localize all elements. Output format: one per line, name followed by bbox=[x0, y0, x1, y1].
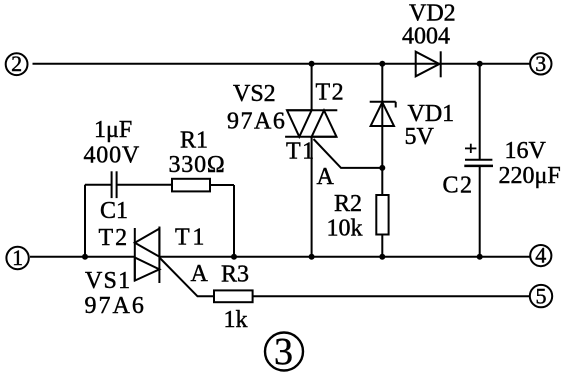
wire VS2 gate to node A bbox=[314, 139, 383, 168]
svg-text:VS2: VS2 bbox=[233, 81, 276, 107]
diode VD2 bbox=[416, 51, 441, 77]
svg-text:1: 1 bbox=[12, 245, 23, 270]
resistor R1 bbox=[172, 179, 210, 192]
svg-text:3: 3 bbox=[535, 51, 546, 76]
zener diode VD1 bbox=[370, 64, 396, 168]
svg-text:1μF: 1μF bbox=[94, 117, 132, 143]
svg-text:T1: T1 bbox=[175, 225, 207, 251]
terminal 3 bbox=[530, 51, 551, 76]
junction line1 at C2 bbox=[477, 254, 483, 260]
resistor R2 bbox=[376, 168, 388, 257]
terminal 2 bbox=[6, 51, 28, 76]
svg-text:10k: 10k bbox=[327, 216, 363, 242]
terminal 4 bbox=[530, 242, 551, 267]
svg-text:R1: R1 bbox=[180, 128, 208, 154]
junction node A bbox=[379, 165, 385, 171]
svg-text:4: 4 bbox=[535, 242, 546, 267]
capacitor C1 bbox=[85, 171, 172, 198]
junction line1 at C1 riser bbox=[82, 254, 88, 260]
wire R1 right riser bbox=[233, 185, 235, 257]
svg-text:5V: 5V bbox=[405, 124, 435, 150]
svg-text:A: A bbox=[317, 164, 335, 190]
svg-text:1k: 1k bbox=[224, 307, 248, 333]
svg-text:3: 3 bbox=[274, 331, 293, 373]
svg-text:97A6: 97A6 bbox=[85, 293, 146, 319]
svg-text:A: A bbox=[191, 261, 209, 287]
wire R3 to terminal 5 bbox=[253, 295, 530, 297]
svg-text:97A6: 97A6 bbox=[227, 109, 286, 135]
triac VS2 bbox=[285, 110, 337, 137]
triac VS1 bbox=[135, 227, 160, 284]
figure number 3 bbox=[265, 331, 303, 373]
capacitor C2 bbox=[464, 64, 493, 257]
junction on line 2 at VD1 branch bbox=[379, 61, 385, 67]
wire R1 to right riser bbox=[210, 184, 234, 186]
terminal 5 bbox=[530, 283, 552, 308]
junction on line 2 at VS2 branch bbox=[309, 61, 315, 67]
svg-text:16V: 16V bbox=[505, 138, 547, 164]
svg-text:330Ω: 330Ω bbox=[169, 152, 226, 178]
wire VS2 T2 riser bbox=[311, 64, 313, 111]
wire line 1 from terminal 1 to VS1 T2 bar bbox=[30, 256, 135, 258]
junction on line 2 at C2 branch bbox=[477, 61, 483, 67]
junction line1 at R2 bbox=[379, 254, 385, 260]
wire VS1 gate diagonal bbox=[159, 258, 214, 297]
svg-text:4004: 4004 bbox=[402, 24, 450, 50]
terminal 1 bbox=[6, 245, 28, 270]
svg-text:VS1: VS1 bbox=[85, 268, 131, 294]
svg-text:400V: 400V bbox=[84, 143, 141, 169]
svg-text:T2: T2 bbox=[99, 225, 130, 251]
resistor R3 bbox=[214, 290, 253, 302]
svg-text:T2: T2 bbox=[316, 80, 346, 106]
svg-text:R2: R2 bbox=[334, 191, 362, 217]
junction line1 at R1 riser bbox=[231, 254, 237, 260]
svg-text:C1: C1 bbox=[100, 198, 128, 224]
svg-text:2: 2 bbox=[11, 51, 22, 76]
svg-text:R3: R3 bbox=[221, 262, 249, 288]
wire line 1 from VS1 T1 bar to terminal 4 bbox=[159, 256, 530, 258]
svg-text:C2: C2 bbox=[443, 173, 474, 199]
svg-text:T1: T1 bbox=[286, 139, 316, 165]
svg-text:220μF: 220μF bbox=[499, 163, 561, 189]
junction line1 at VS2 bbox=[309, 254, 315, 260]
svg-text:5: 5 bbox=[536, 283, 547, 308]
wire C1 left riser bbox=[84, 185, 86, 257]
wire top line from terminal 2 to terminal 3 bbox=[33, 63, 531, 65]
wire VS2 T1 to line 1 bbox=[311, 137, 313, 257]
